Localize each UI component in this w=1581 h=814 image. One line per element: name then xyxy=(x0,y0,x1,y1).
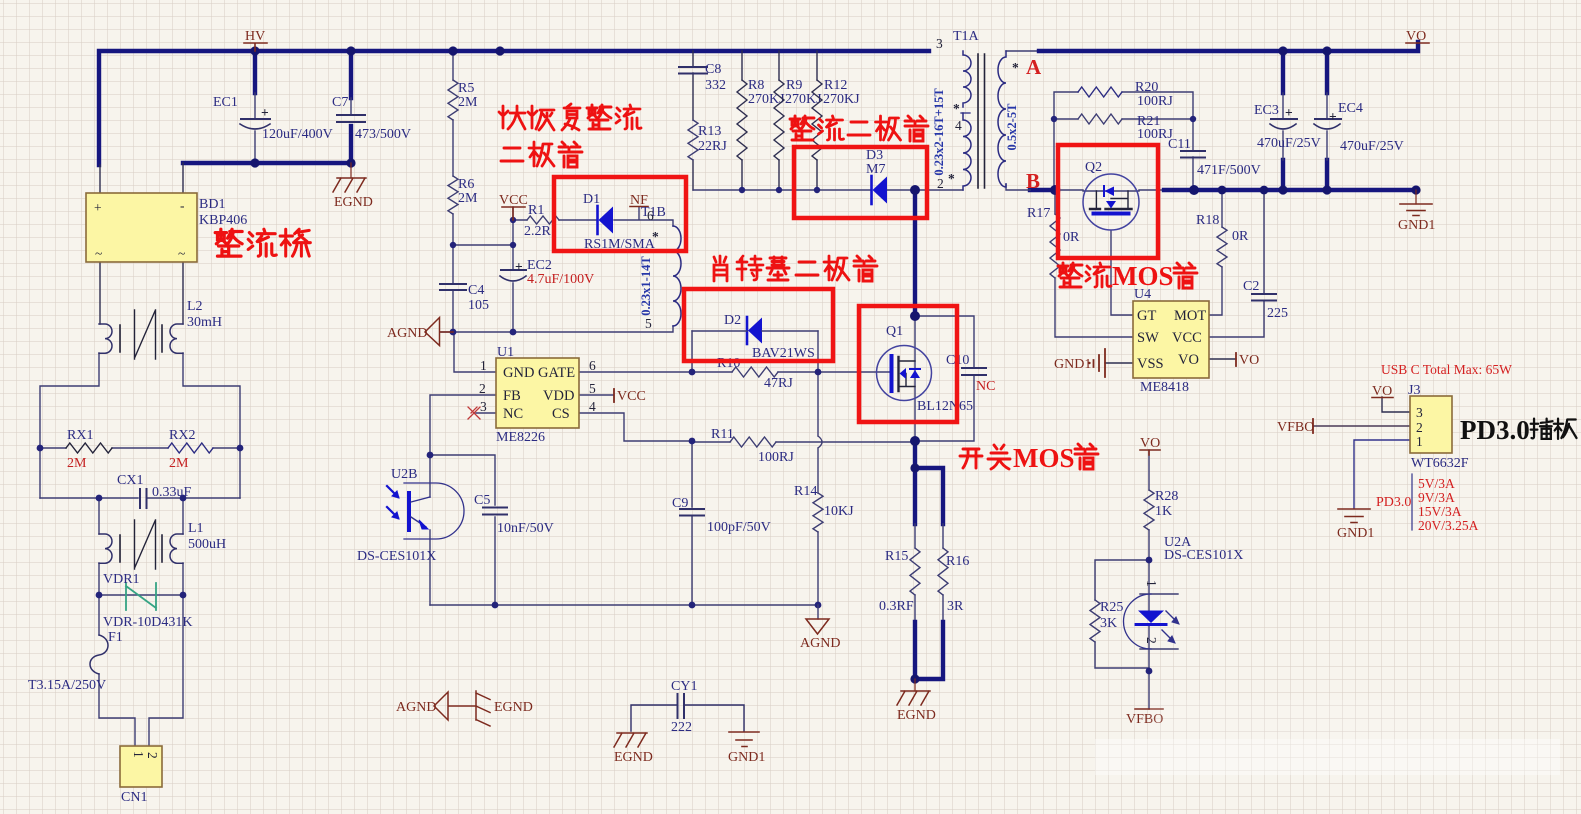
varistor VDR1 xyxy=(103,572,192,630)
resistor R20 xyxy=(1078,80,1173,109)
wire AGND rail xyxy=(441,326,673,332)
svg-text:GND1: GND1 xyxy=(1398,218,1435,233)
svg-text:VSS: VSS xyxy=(1137,356,1164,372)
svg-text:VFBO: VFBO xyxy=(1277,420,1314,435)
svg-text:U2B: U2B xyxy=(391,467,417,482)
wire HV bus top rail xyxy=(99,51,929,165)
annotation box Q2 rectifier MOS xyxy=(1058,145,1158,258)
wire U1 pin5 VDD xyxy=(579,394,613,396)
svg-text:AGND: AGND xyxy=(387,326,427,341)
wire C10 branch xyxy=(915,316,974,441)
resistor R25 xyxy=(1090,600,1123,642)
svg-text:R15: R15 xyxy=(885,549,908,564)
svg-text:470uF/25V: 470uF/25V xyxy=(1257,136,1321,151)
svg-text:3: 3 xyxy=(480,399,487,414)
wire Q2 gate to GT xyxy=(1111,231,1133,315)
ic U1 ME8226 xyxy=(468,345,596,445)
svg-text:*: * xyxy=(652,229,659,244)
svg-text:C5: C5 xyxy=(474,493,490,508)
svg-text:M7: M7 xyxy=(866,162,885,177)
svg-text:0.23x2-16T+15T: 0.23x2-16T+15T xyxy=(932,88,946,176)
svg-text:F1: F1 xyxy=(108,630,123,645)
power port VFBO bottom xyxy=(1126,709,1163,727)
svg-text:R6: R6 xyxy=(458,177,474,192)
svg-text:R5: R5 xyxy=(458,81,474,96)
svg-text:WT6632F: WT6632F xyxy=(1411,456,1469,471)
svg-text:2: 2 xyxy=(1416,420,1423,435)
svg-text:105: 105 xyxy=(468,298,489,313)
svg-text:+: + xyxy=(515,259,523,274)
svg-text:~: ~ xyxy=(178,246,185,261)
svg-text:VO: VO xyxy=(1140,436,1160,451)
annotation box D2 schottky diode xyxy=(684,289,833,361)
svg-text:EGND: EGND xyxy=(494,700,533,715)
resistor R18 xyxy=(1196,213,1249,267)
transformer T1A xyxy=(932,29,1042,193)
resistor R1 xyxy=(524,203,559,239)
resistor R13 xyxy=(688,120,727,160)
svg-text:R11: R11 xyxy=(711,427,734,442)
resistor R6 xyxy=(448,176,478,214)
wire R25 loop xyxy=(1095,560,1149,668)
svg-text:5: 5 xyxy=(589,381,596,396)
svg-text:2: 2 xyxy=(145,752,160,759)
svg-text:100RJ: 100RJ xyxy=(758,450,794,465)
wire EC1 bottom lead xyxy=(254,131,256,163)
wire primary ground rail EGND xyxy=(183,161,351,165)
svg-text:3K: 3K xyxy=(1100,616,1117,631)
svg-text:R28: R28 xyxy=(1155,489,1178,504)
svg-text:L1: L1 xyxy=(188,521,204,536)
svg-text:EC3: EC3 xyxy=(1254,103,1279,118)
wire BD1 pin leads xyxy=(100,163,183,324)
svg-text:GATE: GATE xyxy=(538,365,575,381)
svg-text:GT: GT xyxy=(1137,308,1156,324)
svg-text:5V/3A: 5V/3A xyxy=(1418,476,1455,491)
power port VCC at U1 pin5 xyxy=(614,389,646,404)
svg-text:VO: VO xyxy=(1406,29,1426,44)
svg-text:MOS: MOS xyxy=(1112,261,1174,291)
svg-text:20V/3.25A: 20V/3.25A xyxy=(1418,518,1479,533)
svg-text:*: * xyxy=(948,171,955,186)
connector CN1 xyxy=(120,746,162,805)
wire bottom AGND rail xyxy=(430,604,818,606)
svg-text:R14: R14 xyxy=(794,484,817,499)
wire J3 pin2 VFBO xyxy=(1313,425,1410,427)
svg-text:J3: J3 xyxy=(1408,383,1420,398)
svg-text:225: 225 xyxy=(1267,306,1288,321)
svg-text:GND1: GND1 xyxy=(728,750,765,765)
svg-text:1: 1 xyxy=(131,751,146,758)
svg-text:+: + xyxy=(261,105,269,120)
svg-text:2: 2 xyxy=(1144,637,1159,644)
svg-text:AGND: AGND xyxy=(800,636,840,651)
wire J3 pin1 to GND1 xyxy=(1354,440,1410,508)
capacitor C4 xyxy=(440,283,489,313)
svg-text:VO: VO xyxy=(1178,352,1199,368)
svg-text:0R: 0R xyxy=(1232,229,1249,244)
annotation box D3 rectifier diode xyxy=(794,147,927,218)
annotation text rectifier bridge xyxy=(215,229,310,256)
power port HV xyxy=(244,29,267,51)
watermark band xyxy=(1095,739,1560,775)
wire R8 R9 R12 leads xyxy=(742,51,817,190)
wire B row through Q2 xyxy=(1006,184,1164,191)
svg-text:R12: R12 xyxy=(824,78,847,93)
svg-text:C8: C8 xyxy=(705,62,721,77)
svg-text:1: 1 xyxy=(480,358,487,373)
wire secondary GND1 rail thick xyxy=(1164,188,1416,192)
annotation text rectifier MOS xyxy=(1058,261,1197,291)
svg-text:PD3.0: PD3.0 xyxy=(1460,415,1530,445)
svg-text:DS-CES101X: DS-CES101X xyxy=(1164,548,1243,563)
svg-text:EGND: EGND xyxy=(614,750,653,765)
svg-text:0R: 0R xyxy=(1063,230,1080,245)
wire Q1 drain thick xyxy=(913,190,917,316)
svg-text:2M: 2M xyxy=(458,191,478,206)
wire AC loop left xyxy=(40,353,240,498)
svg-text:0.23x1-14T: 0.23x1-14T xyxy=(639,256,653,316)
svg-text:ME8226: ME8226 xyxy=(496,430,545,445)
svg-text:EC2: EC2 xyxy=(527,258,552,273)
svg-text:D3: D3 xyxy=(866,148,883,163)
resistor R11 xyxy=(711,427,794,465)
svg-text:15V/3A: 15V/3A xyxy=(1418,504,1462,519)
svg-text:BL12N65: BL12N65 xyxy=(917,399,973,414)
svg-text:2: 2 xyxy=(937,176,944,191)
ground EGND under CY1 xyxy=(614,733,653,765)
svg-text:GND: GND xyxy=(503,365,534,381)
resistor R17 xyxy=(1027,206,1080,278)
capacitor CX1 xyxy=(117,473,192,508)
svg-text:BD1: BD1 xyxy=(199,197,225,212)
wire R14 column with hop xyxy=(818,372,822,605)
wire sense resistor thin leads xyxy=(915,524,943,622)
wire U1 pin2 FB xyxy=(430,395,496,455)
svg-text:270KJ: 270KJ xyxy=(823,92,860,107)
svg-text:R8: R8 xyxy=(748,78,764,93)
svg-text:KBP406: KBP406 xyxy=(199,213,247,228)
wire U1 pin6 gate row xyxy=(579,371,891,373)
wire R5 R6 C4 column xyxy=(452,51,454,332)
transformer T1B aux winding xyxy=(639,205,681,331)
junction dots thick nets xyxy=(250,46,1420,683)
wire U1 pin4 CS xyxy=(579,413,692,441)
diode D3 M7 xyxy=(866,148,887,204)
svg-text:C2: C2 xyxy=(1243,279,1259,294)
wire CX row xyxy=(40,497,240,499)
capacitor C8 xyxy=(679,62,726,93)
wire VO bus top rail xyxy=(1039,42,1418,51)
svg-text:-: - xyxy=(180,198,185,213)
svg-text:~: ~ xyxy=(95,246,102,261)
svg-text:L2: L2 xyxy=(187,299,203,314)
wire U1 pin3 stub xyxy=(476,412,496,414)
net tie AGND EGND pair xyxy=(396,691,533,726)
capacitor EC3 xyxy=(1254,93,1321,160)
wire C7 bottom stub xyxy=(349,126,353,163)
ground EGND under sense resistors xyxy=(897,679,936,723)
capacitor C10 xyxy=(946,353,995,394)
svg-text:1K: 1K xyxy=(1155,504,1172,519)
power port VO above R28 xyxy=(1140,436,1160,455)
svg-text:*: * xyxy=(953,101,960,116)
svg-text:R17: R17 xyxy=(1027,206,1050,221)
power port VO at U4 xyxy=(1236,353,1259,368)
wire D2 drop leads xyxy=(692,331,818,372)
resistor R5 xyxy=(448,80,478,120)
svg-text:GND1: GND1 xyxy=(1054,357,1091,372)
resistor R14 xyxy=(794,484,854,532)
junction dots thin nets xyxy=(37,116,1197,675)
wire J3 pin3 VO xyxy=(1382,397,1410,412)
optocoupler U2B transistor xyxy=(357,467,464,564)
svg-text:NC: NC xyxy=(503,406,523,422)
svg-text:CX1: CX1 xyxy=(117,473,143,488)
svg-text:USB C Total Max: 65W: USB C Total Max: 65W xyxy=(1381,362,1512,377)
svg-text:EC4: EC4 xyxy=(1338,101,1363,116)
optocoupler U2A LED xyxy=(1124,535,1244,649)
capacitor EC2 xyxy=(500,258,594,287)
svg-text:MOT: MOT xyxy=(1174,308,1206,324)
wire R28 column xyxy=(1148,450,1150,560)
note PD3.0 voltage list xyxy=(1376,474,1479,533)
annotation box D1 fast recovery diode xyxy=(554,177,686,251)
svg-text:DS-CES101X: DS-CES101X xyxy=(357,549,436,564)
title PD3.0 socket board black xyxy=(1460,415,1577,445)
svg-text:10nF/50V: 10nF/50V xyxy=(497,521,554,536)
wire EC1 top stub xyxy=(253,51,257,93)
wire EC3 EC4 bottom stubs xyxy=(1283,160,1327,190)
svg-text:332: 332 xyxy=(705,78,726,93)
wire R20 R21 snubber loop xyxy=(1054,92,1193,190)
svg-text:D2: D2 xyxy=(724,313,741,328)
capacitor EC1 xyxy=(213,93,333,142)
svg-text:5: 5 xyxy=(645,316,652,331)
svg-text:FB: FB xyxy=(503,388,521,404)
svg-text:B: B xyxy=(1026,169,1040,193)
svg-text:4: 4 xyxy=(955,118,962,133)
svg-text:EGND: EGND xyxy=(897,708,936,723)
svg-text:2M: 2M xyxy=(169,456,189,471)
svg-text:4.7uF/100V: 4.7uF/100V xyxy=(527,272,594,287)
svg-text:VCC: VCC xyxy=(499,193,528,208)
wire VCC node row xyxy=(453,207,513,332)
svg-text:R20: R20 xyxy=(1135,80,1158,95)
resistor RX2 xyxy=(168,428,213,471)
svg-text:2M: 2M xyxy=(67,456,87,471)
wire C8 R13 column xyxy=(692,51,694,190)
svg-text:EC1: EC1 xyxy=(213,95,238,110)
svg-text:U1: U1 xyxy=(497,345,514,360)
bridge rectifier BD1 xyxy=(86,193,247,262)
svg-text:2M: 2M xyxy=(458,95,478,110)
power port VO top right xyxy=(1406,29,1429,44)
ic U4 ME8418 xyxy=(1133,287,1209,395)
annotation text fast recovery rectifier diode xyxy=(499,104,641,167)
svg-text:3: 3 xyxy=(936,36,943,51)
wire RX row xyxy=(40,447,240,449)
capacitor C9 xyxy=(672,496,771,535)
wire Q1 axis thin xyxy=(914,316,916,441)
wire U2A LED column xyxy=(1140,560,1178,671)
capacitor C7 xyxy=(332,95,411,142)
transistor Q1 BL12N65 xyxy=(877,324,974,414)
ground AGND under R14 xyxy=(800,605,840,651)
svg-text:30mH: 30mH xyxy=(187,315,222,330)
svg-text:9V/3A: 9V/3A xyxy=(1418,490,1455,505)
resistor RX1 xyxy=(66,428,112,471)
svg-text:2.2R: 2.2R xyxy=(524,224,552,239)
power port VO at J3 xyxy=(1372,384,1393,399)
svg-text:VO: VO xyxy=(1239,353,1259,368)
svg-text:6: 6 xyxy=(647,208,654,223)
wire VFBO stem xyxy=(1148,671,1150,709)
wire U4 VO stub xyxy=(1209,358,1236,360)
wire F1 column to CN1 xyxy=(99,595,135,746)
wire U4 VSS to GND1 xyxy=(1105,362,1133,364)
svg-text:R16: R16 xyxy=(946,554,969,569)
svg-text:2: 2 xyxy=(479,381,486,396)
resistor R8 xyxy=(737,78,785,160)
svg-text:R1: R1 xyxy=(528,203,544,218)
resistor R21 xyxy=(1078,114,1173,142)
svg-text:GND1: GND1 xyxy=(1337,526,1374,541)
power port VFBO at J3 xyxy=(1277,419,1314,435)
svg-text:SW: SW xyxy=(1137,330,1159,346)
svg-text:R18: R18 xyxy=(1196,213,1219,228)
svg-text:R13: R13 xyxy=(698,124,721,139)
svg-text:EGND: EGND xyxy=(334,195,373,210)
resistor R10 xyxy=(717,356,793,391)
svg-text:C9: C9 xyxy=(672,496,688,511)
svg-text:VCC: VCC xyxy=(1172,330,1202,346)
annotation text schottky diode xyxy=(714,256,877,281)
annotation text switch MOS xyxy=(960,443,1098,473)
wire U1 pin1 xyxy=(454,332,496,372)
svg-text:100RJ: 100RJ xyxy=(1137,94,1173,109)
transistor Q2 xyxy=(1083,160,1139,230)
svg-text:C11: C11 xyxy=(1168,137,1191,152)
svg-text:473/500V: 473/500V xyxy=(355,127,411,142)
wire R11 row to source xyxy=(692,441,915,443)
svg-text:100pF/50V: 100pF/50V xyxy=(707,520,771,535)
svg-text:3: 3 xyxy=(1416,405,1423,420)
svg-text:VDR-10D431K: VDR-10D431K xyxy=(103,615,192,630)
wire CY1 row xyxy=(631,705,744,731)
svg-text:47RJ: 47RJ xyxy=(764,376,793,391)
wire T1A secondary top A xyxy=(1006,50,1039,52)
ground GND1 right of CY1 xyxy=(728,732,765,765)
diode D1 RS1M xyxy=(583,192,656,252)
choke L1 xyxy=(99,520,226,569)
wire L1 leads xyxy=(99,498,183,595)
capacitor C5 xyxy=(474,493,554,536)
svg-text:*: * xyxy=(1012,60,1019,75)
resistor R15 xyxy=(879,548,920,614)
ground AGND left port xyxy=(387,318,453,346)
wire N column to CN1 xyxy=(149,595,183,746)
wire R17 column to SW xyxy=(1055,190,1133,337)
ground GND1 at J3 xyxy=(1337,509,1374,541)
wire VDR row xyxy=(99,594,183,596)
resistor R9 xyxy=(774,78,822,160)
svg-text:VDR1: VDR1 xyxy=(103,572,140,587)
svg-text:222: 222 xyxy=(671,720,692,735)
svg-text:A: A xyxy=(1026,55,1042,79)
svg-text:22RJ: 22RJ xyxy=(698,139,727,154)
svg-text:MOS: MOS xyxy=(1013,443,1075,473)
svg-text:T3.15A/250V: T3.15A/250V xyxy=(28,678,106,693)
svg-text:RX2: RX2 xyxy=(169,428,195,443)
connector J3 WT6632F xyxy=(1408,383,1469,471)
annotation text rectifier diode xyxy=(790,116,928,141)
svg-text:T1A: T1A xyxy=(953,29,980,44)
svg-text:R9: R9 xyxy=(786,78,802,93)
svg-text:C7: C7 xyxy=(332,95,348,110)
svg-text:D1: D1 xyxy=(583,192,600,207)
capacitor C2 xyxy=(1243,279,1288,321)
svg-text:0.3RF: 0.3RF xyxy=(879,599,914,614)
svg-text:VDD: VDD xyxy=(543,388,574,404)
svg-text:Q1: Q1 xyxy=(886,324,903,339)
choke L2 xyxy=(99,299,222,359)
capacitor EC4 xyxy=(1314,93,1404,160)
wire B node thick xyxy=(1030,188,1058,192)
svg-text:HV: HV xyxy=(245,29,265,44)
wire R16 bottom thick xyxy=(915,622,943,679)
resistor R12 xyxy=(812,78,860,160)
svg-text:PD3.0: PD3.0 xyxy=(1376,495,1411,510)
svg-text:R10: R10 xyxy=(717,356,740,371)
ground EGND under C7 xyxy=(333,163,373,210)
svg-text:0.5x2-5T: 0.5x2-5T xyxy=(1005,103,1019,151)
diode D2 BAV21WS xyxy=(692,313,818,361)
svg-text:Q2: Q2 xyxy=(1085,160,1102,175)
svg-text:1: 1 xyxy=(1144,580,1159,587)
svg-text:ME8418: ME8418 xyxy=(1140,380,1189,395)
svg-text:NC: NC xyxy=(976,379,995,394)
wire C7 top stub xyxy=(349,51,353,98)
svg-text:+: + xyxy=(1329,109,1337,124)
svg-text:10KJ: 10KJ xyxy=(824,504,854,519)
svg-text:VCC: VCC xyxy=(617,389,646,404)
resistor R16 xyxy=(938,548,969,614)
ground GND1 at U4 VSS xyxy=(1054,349,1105,377)
svg-text:C4: C4 xyxy=(468,283,484,298)
wire opto collector emitter xyxy=(429,455,431,605)
svg-text:270KJ: 270KJ xyxy=(748,92,785,107)
svg-text:471F/500V: 471F/500V xyxy=(1197,163,1261,178)
svg-text:AGND: AGND xyxy=(396,700,436,715)
wire D3 clamp row xyxy=(693,189,963,191)
svg-text:+: + xyxy=(1285,105,1293,120)
svg-text:RX1: RX1 xyxy=(67,428,93,443)
svg-text:CN1: CN1 xyxy=(121,790,147,805)
power port NF xyxy=(630,193,648,208)
wire sense resistor loop thick xyxy=(915,441,943,524)
ground GND1 right rail xyxy=(1398,190,1435,233)
wire C9 column xyxy=(691,441,693,605)
capacitor CY1 xyxy=(671,679,697,735)
svg-text:470uF/25V: 470uF/25V xyxy=(1340,139,1404,154)
svg-text:R25: R25 xyxy=(1100,600,1123,615)
svg-text:+: + xyxy=(94,200,102,215)
svg-text:0.33uF: 0.33uF xyxy=(152,485,192,500)
wire U4 MOT to R18 xyxy=(1209,190,1222,315)
capacitor C11 xyxy=(1168,137,1261,178)
svg-text:500uH: 500uH xyxy=(188,537,226,552)
